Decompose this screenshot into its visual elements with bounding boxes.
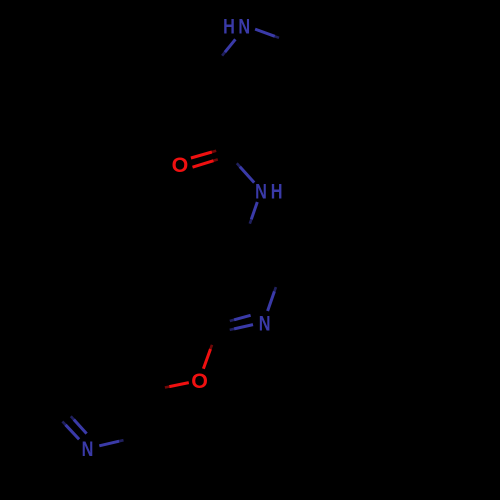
bond O(ether)-C half going left	[165, 383, 189, 388]
svg-text:H: H	[223, 16, 235, 40]
bond O(ether)-C half going up-right	[203, 345, 212, 369]
double bond C=O upper line (red half)	[191, 151, 216, 158]
double bond C=N inner line (bottom pyridine)	[71, 416, 87, 433]
bond N(amide)-C half below NH	[250, 202, 257, 224]
svg-text:O: O	[191, 369, 208, 393]
bond C(=O)-N amide half near N	[237, 163, 254, 182]
svg-text:N: N	[255, 180, 267, 204]
double bond C=N axis line (middle pyridine)	[230, 325, 253, 330]
svg-text:N: N	[238, 16, 250, 40]
svg-text:H: H	[271, 180, 283, 204]
bond N1-C5 half (pyrrole N to right)	[255, 29, 279, 38]
svg-text:O: O	[172, 153, 189, 177]
svg-text:N: N	[82, 438, 94, 462]
double bond C=N axis line (bottom pyridine)	[62, 422, 79, 440]
bond N1-C2 half (pyrrole N down-left)	[222, 39, 235, 55]
svg-text:N: N	[259, 313, 271, 337]
double bond C=O lower line (red half)	[193, 159, 218, 167]
pyrrole N-H label (HN)	[223, 16, 250, 40]
bond N(bottom pyridine)-C half going right	[99, 440, 123, 446]
double bond C=N inner line (middle pyridine)	[230, 315, 251, 321]
amide N-H label (NH)	[255, 180, 282, 204]
bond N(pyridine)-C half going up-right	[268, 287, 276, 311]
